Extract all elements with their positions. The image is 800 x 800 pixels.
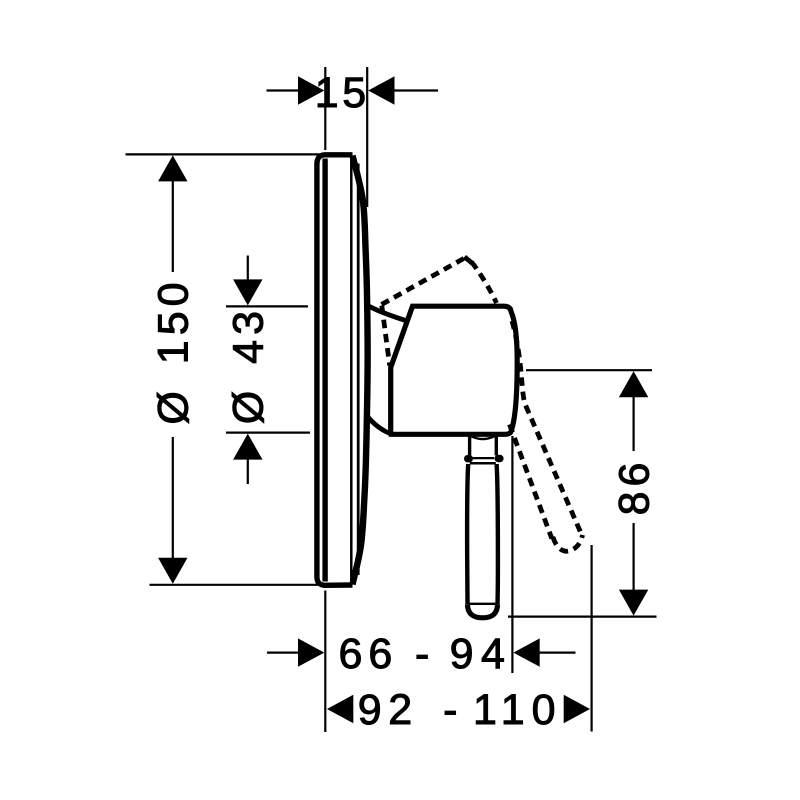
- dashed handle left near-vertical edge: [382, 306, 390, 366]
- handle collar right knob: [495, 455, 504, 462]
- dim 150: label: [150, 277, 198, 424]
- dim 86: top extension line: [526, 369, 652, 371]
- svg-text:86: 86: [610, 458, 658, 516]
- dim 150: lower line segment: [172, 437, 174, 558]
- dim 150: bottom arrow: [158, 558, 187, 584]
- dim 15: right extension line: [366, 67, 368, 207]
- dim 92-110: right arrow: [564, 695, 590, 723]
- handle collar bottom seam: [470, 462, 496, 465]
- handle grip right edge: [497, 464, 498, 604]
- escutcheon plate front silhouette: [317, 155, 353, 586]
- dashed band bottom cap: [553, 535, 583, 551]
- dim 43: bottom arrow: [233, 434, 262, 460]
- dim 150: top arrow: [158, 155, 187, 181]
- plate inner edge line: [350, 158, 353, 583]
- bottom dims: middle extension line: [511, 436, 513, 673]
- dashed handle upper edge A: [382, 258, 466, 305]
- dim 43: bottom extension line: [226, 432, 310, 434]
- dashed handle peak cap: [465, 257, 473, 264]
- dim 43: label: [225, 306, 273, 424]
- svg-text:92: 92: [358, 686, 419, 734]
- svg-text:Ø 150: Ø 150: [150, 277, 198, 424]
- plate dome outer curve: [353, 156, 368, 585]
- dim 43: bottom tail: [247, 459, 249, 484]
- svg-text:110: 110: [473, 686, 563, 734]
- svg-text:-: -: [443, 686, 457, 734]
- plate front rim line: [322, 159, 327, 582]
- dim 15: right arrow: [368, 76, 394, 104]
- handle grip left edge: [467, 464, 468, 604]
- handle neck top arc: [471, 436, 494, 439]
- dim 15: left tail: [267, 89, 300, 91]
- dim 92-110: left arrow: [327, 695, 353, 723]
- dim 86: upper line segment: [632, 397, 634, 452]
- dim 15: right tail: [394, 89, 439, 91]
- dim 66-94: right tail: [539, 651, 576, 653]
- handle collar top seam: [473, 457, 495, 459]
- dim 86: lower line segment: [632, 523, 634, 592]
- handle neck left edge: [468, 435, 471, 456]
- dim 86: bottom arrow: [619, 590, 648, 616]
- dim 66-94: right arrow: [513, 638, 539, 666]
- plate dome inner line: [357, 164, 360, 576]
- dim 43: top extension line: [226, 305, 308, 307]
- svg-text:-: -: [415, 630, 429, 678]
- dim 66-94: left tail: [267, 651, 300, 653]
- dim 43: top tail: [247, 256, 249, 282]
- dashed band left edge: [510, 425, 552, 539]
- dashed handle right edge B: [472, 262, 497, 303]
- svg-text:Ø 43: Ø 43: [225, 306, 273, 424]
- dashed lever along valve edge and band right edge: [512, 321, 582, 536]
- dim 86: label: [610, 458, 658, 516]
- valve body: [389, 306, 518, 434]
- svg-text:66: 66: [339, 630, 399, 678]
- dim 15: left extension line: [324, 67, 326, 150]
- handle cap bottom: [468, 604, 498, 618]
- sleeve bottom arc: [368, 418, 389, 434]
- dim 15: left arrow: [298, 76, 324, 104]
- dim 150: bottom extension line: [150, 584, 321, 586]
- svg-text:15: 15: [315, 69, 370, 117]
- svg-text:94: 94: [450, 630, 513, 678]
- bottom dims: left extension line: [324, 591, 326, 733]
- dim 150: top extension line: [126, 153, 323, 155]
- handle neck right edge: [495, 435, 498, 456]
- dim 86: bottom extension line: [508, 615, 657, 617]
- dim 66-94: left arrow: [298, 638, 324, 666]
- handle collar left knob: [464, 455, 473, 462]
- dim 86: top arrow: [619, 371, 648, 397]
- handle cap seam: [468, 603, 498, 605]
- sleeve top arc: [367, 305, 408, 321]
- dim 150: upper line segment: [172, 181, 174, 272]
- bottom dims: right extension line: [590, 545, 592, 732]
- dim 43: top arrow: [233, 279, 262, 305]
